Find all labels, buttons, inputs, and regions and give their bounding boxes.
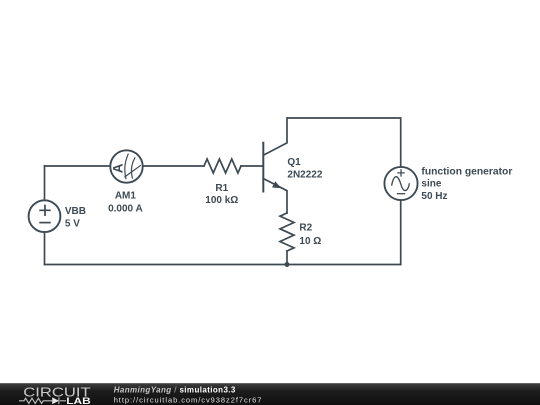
- svg-text:LAB: LAB: [66, 396, 91, 405]
- svg-text:AM1: AM1: [115, 191, 137, 202]
- svg-text:Q1: Q1: [287, 157, 301, 168]
- svg-text:0.000 A: 0.000 A: [108, 203, 143, 214]
- svg-text:function generator: function generator: [421, 167, 512, 178]
- svg-text:10 Ω: 10 Ω: [299, 236, 321, 247]
- svg-text:2N2222: 2N2222: [287, 170, 322, 181]
- svg-text:5 V: 5 V: [65, 219, 80, 230]
- svg-text:R2: R2: [299, 223, 312, 234]
- svg-text:A: A: [110, 163, 125, 173]
- svg-text:R1: R1: [215, 183, 228, 194]
- svg-text:100 kΩ: 100 kΩ: [205, 195, 238, 206]
- svg-text:HanmingYang / simulation3.3: HanmingYang / simulation3.3: [114, 386, 236, 395]
- svg-text:50 Hz: 50 Hz: [421, 191, 447, 202]
- svg-text:sine: sine: [421, 178, 441, 189]
- svg-text:VBB: VBB: [65, 206, 86, 217]
- svg-text:http://circuitlab.com/cv938z2f: http://circuitlab.com/cv938z2f7cr67: [114, 395, 263, 404]
